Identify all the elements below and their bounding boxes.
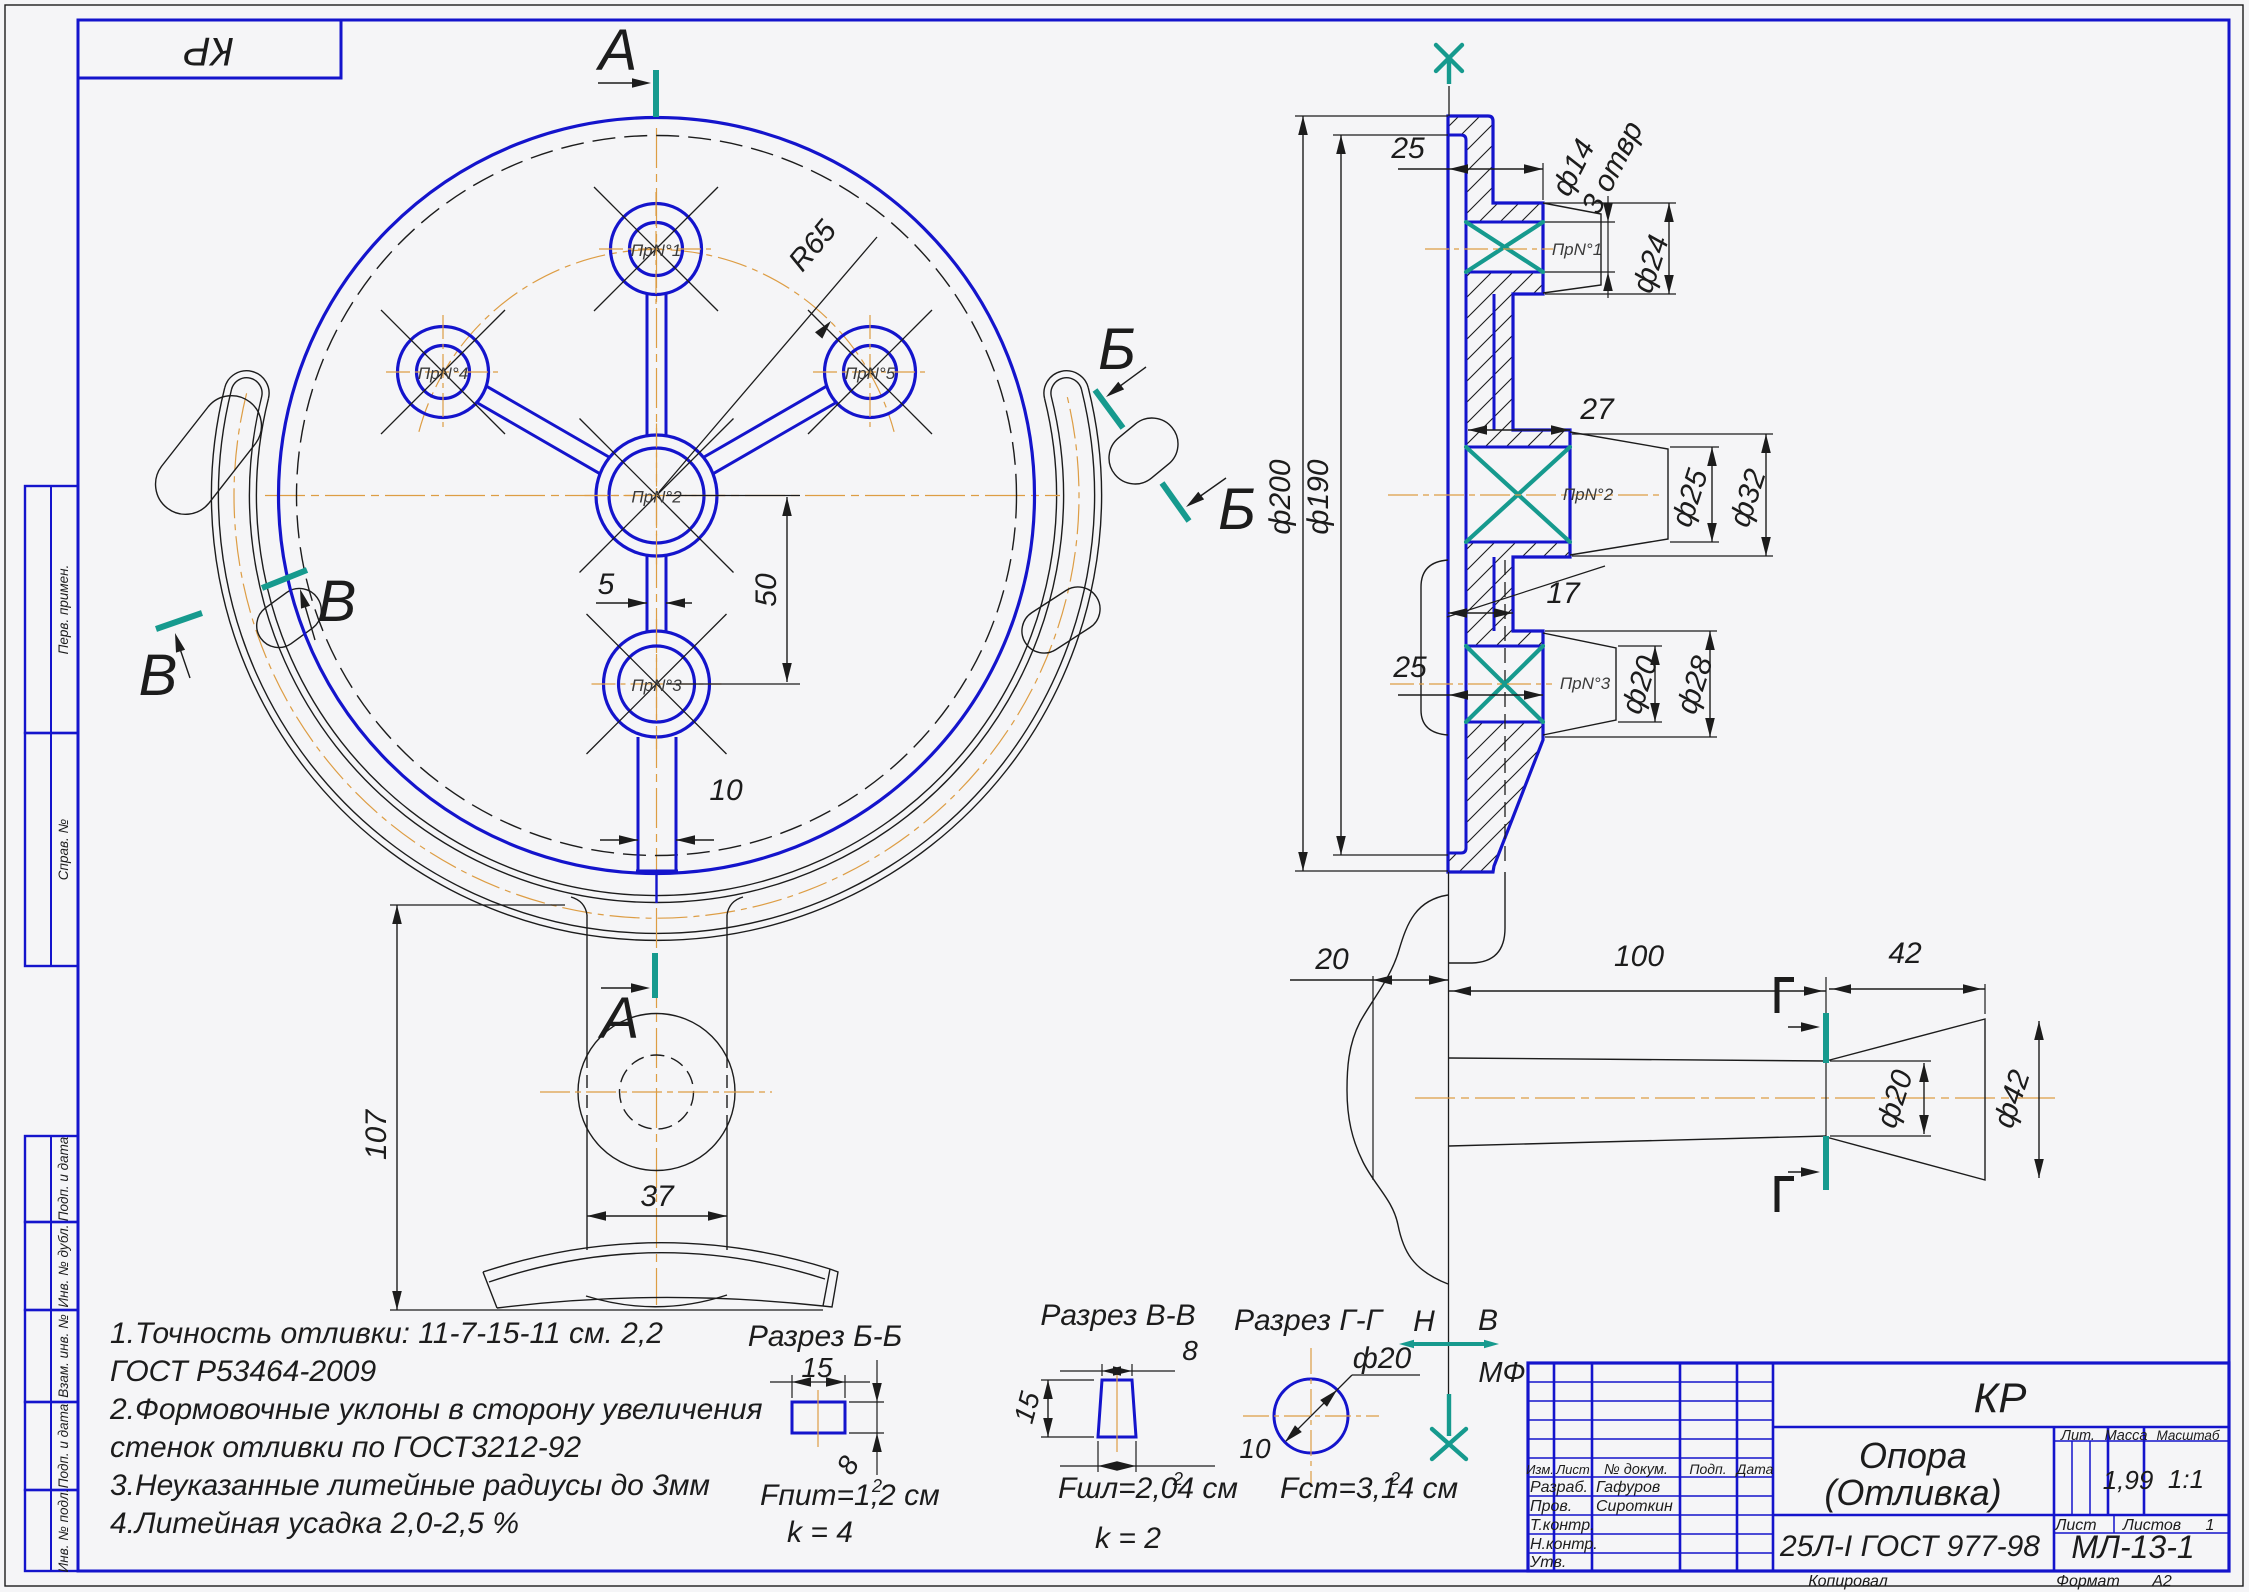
hub orange crosshair — [540, 1091, 772, 1093]
hub hidden circle d20 — [620, 1055, 694, 1129]
long axis line below side view — [1448, 872, 1450, 1394]
svg-text:25: 25 — [1392, 651, 1427, 684]
svg-text:Гафуров: Гафуров — [1596, 1479, 1660, 1496]
svg-text:КР: КР — [184, 29, 235, 73]
section mark G bottom — [1775, 1176, 1780, 1212]
svg-text:ф200: ф200 — [1264, 459, 1297, 534]
svg-text:А: А — [598, 986, 640, 1051]
svg-text:Подп.: Подп. — [1689, 1461, 1726, 1477]
riser PrN3 outline — [1543, 633, 1616, 735]
left stamp: Inv. No podl. — [25, 1490, 78, 1571]
svg-text:ПрN°1: ПрN°1 — [631, 241, 681, 260]
dim 107 — [390, 904, 565, 906]
left stamp: Perv. primen. — [25, 486, 78, 733]
horseshoe band centerline (orange) — [234, 393, 1079, 918]
left stamp: Vzam. inv. No — [25, 1310, 78, 1402]
feeder hole lines PrN1 — [1466, 221, 1543, 224]
foot under-stem arc — [586, 1295, 727, 1307]
svg-text:Fст=3,14 см: Fст=3,14 см — [1280, 1472, 1458, 1505]
lug left inner — [257, 589, 322, 648]
svg-text:2: 2 — [1389, 1469, 1400, 1489]
dim d190 — [1333, 134, 1448, 136]
svg-text:Н.контр.: Н.контр. — [1530, 1536, 1598, 1553]
svg-text:Опора: Опора — [1859, 1435, 1967, 1476]
pouring funnel — [1826, 1019, 1985, 1180]
svg-text:ф190: ф190 — [1302, 459, 1335, 534]
dim d20 funnel — [1830, 1060, 1931, 1062]
boss PrN4 — [398, 327, 489, 418]
runner to PrN1 (vertical) — [646, 294, 649, 436]
svg-text:Т.контр.: Т.контр. — [1530, 1517, 1595, 1534]
section mark B(ve) upper — [262, 570, 307, 588]
left stamp: Podp. i data 2 — [25, 1402, 78, 1490]
hidden line — [1504, 560, 1506, 866]
dim d24 — [1545, 202, 1676, 204]
svg-text:Разраб.: Разраб. — [1530, 1479, 1588, 1496]
top-left stamp box KP — [78, 20, 341, 78]
horseshoe band end caps — [225, 371, 269, 399]
teal X mark PrN2 — [1466, 447, 1570, 542]
svg-text:Инв. № дубл.: Инв. № дубл. — [56, 1224, 71, 1307]
svg-text:В: В — [318, 569, 357, 634]
section mark G ticks — [1823, 1013, 1829, 1063]
svg-text:Изм.: Изм. — [1526, 1462, 1554, 1477]
svg-text:Справ. №: Справ. № — [56, 818, 71, 880]
svg-text:100: 100 — [1614, 940, 1664, 973]
svg-text:Fшл=2,04 см: Fшл=2,04 см — [1058, 1472, 1238, 1505]
section mark B(be) upper — [1095, 390, 1123, 428]
svg-text:10: 10 — [709, 774, 743, 807]
svg-text:27: 27 — [1579, 393, 1615, 426]
svg-text:k = 2: k = 2 — [1095, 1522, 1161, 1555]
svg-text:ПрN°4: ПрN°4 — [418, 364, 468, 383]
front view main centerlines (orange) — [265, 495, 1060, 497]
left stamp: Sprav No — [25, 733, 78, 966]
svg-text:Сироткин: Сироткин — [1596, 1498, 1673, 1515]
svg-text:107: 107 — [360, 1109, 393, 1160]
svg-text:Лист: Лист — [1555, 1462, 1590, 1477]
part break-line blob (side) — [1347, 895, 1448, 1284]
svg-text:Б: Б — [1218, 477, 1256, 542]
svg-text:Перв. примен.: Перв. примен. — [56, 565, 71, 655]
svg-text:37: 37 — [640, 1180, 675, 1213]
svg-text:Fпит=1,2 см: Fпит=1,2 см — [760, 1479, 940, 1512]
svg-text:КР: КР — [1974, 1374, 2027, 1421]
svg-text:Пров.: Пров. — [1530, 1498, 1572, 1515]
svg-text:k = 4: k = 4 — [787, 1516, 853, 1549]
boss PrN5 — [825, 327, 916, 418]
svg-text:8: 8 — [1182, 1335, 1198, 1366]
boss PrN2 — [596, 435, 717, 556]
svg-text:А: А — [596, 18, 638, 83]
section mark B(be) lower — [1162, 483, 1189, 521]
feeder hole lines PrN2 — [1466, 446, 1570, 449]
hub circle d42 — [578, 1014, 735, 1171]
svg-text:Разрез Б-Б: Разрез Б-Б — [748, 1320, 902, 1353]
R65 bolt-circle arc (orange) — [419, 250, 894, 432]
runner to PrN4 — [487, 387, 609, 457]
section mark G top — [1775, 977, 1780, 1013]
casting outer circle d200 — [279, 118, 1035, 874]
svg-text:Н: Н — [1413, 1305, 1435, 1338]
svg-text:ГОСТ Р53464-2009: ГОСТ Р53464-2009 — [110, 1355, 376, 1388]
svg-text:25Л-I ГОСТ 977-98: 25Л-I ГОСТ 977-98 — [1779, 1530, 2040, 1563]
side view inner step lines — [1448, 135, 1466, 853]
left stamp: Inv. No dubl. — [25, 1222, 78, 1310]
svg-text:2.Формовочные уклоны в сторону: 2.Формовочные уклоны в сторону увеличени… — [109, 1393, 763, 1426]
section mark B(ve) lower — [156, 613, 202, 629]
left stamp: Podp. i data — [25, 1136, 78, 1222]
side view hatch fill — [1448, 116, 1570, 872]
part stem below circle — [586, 915, 588, 1055]
svg-text:Подп. и дата: Подп. и дата — [56, 1403, 71, 1488]
svg-text:2: 2 — [871, 1476, 882, 1496]
dashed circle d190 — [297, 136, 1017, 856]
svg-text:ПрN°3: ПрN°3 — [1560, 674, 1611, 693]
svg-text:(Отливка): (Отливка) — [1824, 1472, 2001, 1513]
svg-text:ПрN°5: ПрN°5 — [845, 364, 896, 383]
side view centerlines (orange) — [1425, 248, 1553, 250]
svg-text:Копировал: Копировал — [1808, 1573, 1888, 1590]
sprue shaft — [1449, 1058, 1826, 1061]
svg-text:В: В — [1478, 1304, 1498, 1337]
teal X mark PrN1 — [1466, 222, 1543, 272]
svg-text:ПрN°1: ПрN°1 — [1552, 240, 1602, 259]
svg-text:ф20: ф20 — [1353, 1342, 1412, 1375]
vent star symbol top — [1436, 45, 1462, 71]
svg-text:Подп. и дата: Подп. и дата — [56, 1136, 71, 1221]
riser PrN1 outline — [1543, 203, 1601, 293]
svg-text:МЛ-13-1: МЛ-13-1 — [2071, 1529, 2194, 1565]
dim d20 PrN3 — [1618, 645, 1662, 647]
svg-text:25: 25 — [1390, 132, 1425, 165]
lug right outer — [1109, 418, 1178, 484]
side lug behind plate — [1421, 560, 1448, 735]
svg-text:Масштаб: Масштаб — [2156, 1428, 2219, 1443]
svg-text:В: В — [139, 643, 178, 708]
svg-text:5: 5 — [598, 568, 615, 601]
runner PrN2 to PrN3 — [646, 556, 649, 632]
feeder hole lines PrN3 — [1466, 645, 1543, 648]
svg-text:1,99: 1,99 — [2103, 1465, 2154, 1495]
svg-text:4.Литейная усадка 2,0-2,5 %: 4.Литейная усадка 2,0-2,5 % — [110, 1507, 519, 1540]
svg-text:10: 10 — [1239, 1433, 1271, 1464]
svg-text:Разрез Г-Г: Разрез Г-Г — [1234, 1304, 1385, 1337]
svg-text:1.Точность отливки: 11-7-15-11: 1.Точность отливки: 11-7-15-11 см. 2,2 — [110, 1317, 663, 1350]
dim d200 — [1295, 115, 1448, 117]
runner to PrN5 — [714, 403, 836, 473]
dim d25 — [1670, 446, 1719, 448]
foot curved band — [483, 1243, 830, 1272]
svg-text:ПрN°2: ПрN°2 — [1563, 485, 1614, 504]
dim d28 — [1545, 630, 1717, 632]
svg-text:Утв.: Утв. — [1529, 1554, 1566, 1571]
svg-text:Инв. № подл.: Инв. № подл. — [56, 1489, 71, 1573]
front view: horseshoe band outer arcs — [212, 388, 1102, 941]
front view: horseshoe band inner arcs — [250, 397, 1064, 903]
runner below PrN3 (10mm) — [637, 737, 640, 871]
lug right inner — [1022, 587, 1100, 653]
svg-text:№ докум.: № докум. — [1604, 1462, 1668, 1478]
svg-text:1:1: 1:1 — [2168, 1464, 2204, 1494]
svg-text:стенок отливки по ГОСТ3212-92: стенок отливки по ГОСТ3212-92 — [110, 1431, 581, 1464]
side view blue outline — [1448, 116, 1570, 872]
svg-text:3.Неуказанные литейные радиусы: 3.Неуказанные литейные радиусы до 3мм — [110, 1469, 710, 1502]
boss PrN3 — [604, 631, 710, 737]
svg-text:ПрN°2: ПрN°2 — [631, 488, 682, 507]
section mark A top — [653, 70, 659, 117]
svg-text:Масса: Масса — [2105, 1428, 2148, 1444]
dim d32 — [1572, 433, 1773, 435]
riser PrN2 outline — [1570, 432, 1668, 555]
bottom star symbol — [1447, 1394, 1451, 1436]
section mark A bottom — [652, 953, 658, 998]
svg-text:50: 50 — [750, 573, 783, 607]
lug left outer — [156, 396, 262, 515]
dim d14 3 holes — [1545, 221, 1615, 223]
teal X mark PrN3 — [1466, 646, 1543, 722]
boss PrN1 — [611, 204, 702, 295]
svg-text:42: 42 — [1888, 937, 1922, 970]
title block — [1528, 1363, 2229, 1571]
sprue centerline (orange) — [1415, 1097, 2058, 1099]
svg-text:Дата: Дата — [1735, 1461, 1774, 1477]
svg-text:А2: А2 — [2151, 1573, 2172, 1590]
svg-text:МФ: МФ — [1478, 1357, 1525, 1389]
svg-text:Взам. инв. №: Взам. инв. № — [56, 1314, 71, 1398]
svg-text:Б: Б — [1098, 317, 1136, 382]
svg-text:Лит.: Лит. — [2060, 1428, 2095, 1444]
svg-text:Разрез В-В: Разрез В-В — [1040, 1299, 1195, 1332]
svg-text:1: 1 — [2206, 1517, 2215, 1534]
svg-text:ПрN°3: ПрN°3 — [631, 676, 682, 695]
svg-text:20: 20 — [1314, 943, 1349, 976]
svg-text:15: 15 — [801, 1352, 833, 1383]
svg-text:2: 2 — [1172, 1469, 1183, 1489]
svg-text:Формат: Формат — [2056, 1573, 2120, 1590]
dim R65 — [659, 237, 877, 492]
dim 50 — [666, 495, 800, 497]
svg-text:17: 17 — [1546, 577, 1581, 610]
dim d42 funnel — [2038, 1021, 2040, 1178]
part stub behind (below plate) — [1448, 872, 1505, 963]
